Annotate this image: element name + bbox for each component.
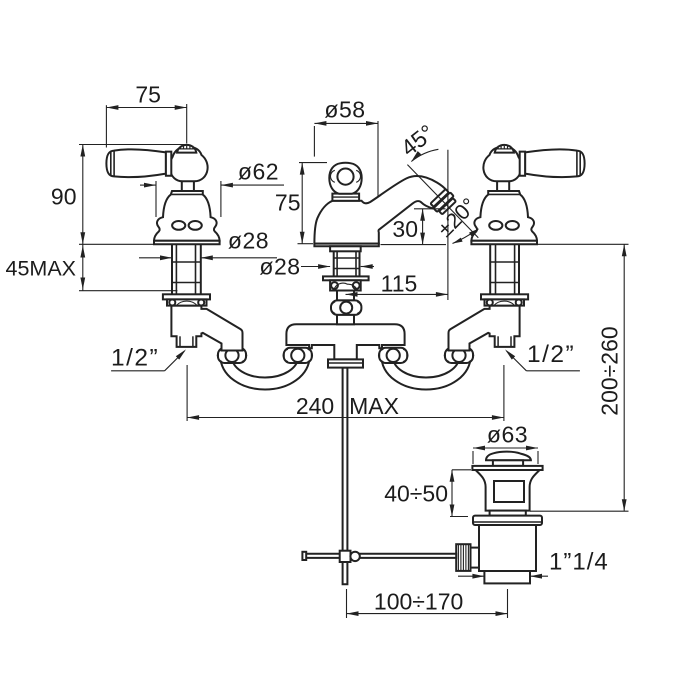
dimension diameter 28 left — [139, 257, 172, 259]
deck flange — [163, 294, 210, 299]
manifold bottom flange — [328, 359, 363, 367]
knob side arcs — [330, 170, 334, 182]
locknut — [167, 299, 207, 305]
svg-text:90: 90 — [51, 184, 77, 210]
45 degree spout angle — [447, 150, 449, 300]
svg-text:30: 30 — [392, 216, 418, 242]
deck flange — [481, 294, 528, 299]
center manifold body — [286, 324, 404, 359]
rod end cap — [302, 552, 306, 560]
svg-text:240: 240 — [296, 393, 334, 419]
dimension 75 left handle — [105, 105, 107, 147]
tap below-deck body and outlet arm — [449, 306, 520, 351]
tap bell base — [471, 191, 537, 241]
manifold right nut — [379, 348, 407, 363]
waste neck — [490, 511, 526, 516]
dimension 40-50 — [451, 470, 453, 517]
svg-text:45MAX: 45MAX — [6, 257, 77, 281]
lever handle grip — [106, 149, 165, 177]
threaded shank — [518, 244, 520, 294]
handle neck — [497, 180, 509, 191]
dimension 45MAX — [82, 244, 84, 290]
deck reference line left — [79, 243, 170, 245]
svg-text:115: 115 — [381, 271, 418, 297]
rod clamp block — [340, 551, 351, 562]
threaded shank — [171, 244, 173, 294]
knurled adjuster nut — [456, 544, 470, 571]
tailpiece 1 1/4 — [484, 571, 530, 583]
centerline tick for 115 — [345, 284, 347, 300]
spout base ring — [314, 244, 378, 247]
handle ball head — [170, 147, 208, 182]
dimension 75 center — [299, 162, 327, 164]
spout deck flange — [323, 276, 369, 280]
riser tube upper — [337, 291, 354, 301]
right U connection pipe — [382, 357, 471, 390]
dimension diameter 63 — [472, 451, 474, 464]
tap below-deck body and outlet arm — [171, 306, 242, 351]
bell ovals — [506, 221, 519, 230]
overflow window — [494, 481, 524, 502]
locknut — [485, 299, 525, 305]
dimension 200-260 — [534, 243, 629, 245]
lever handle grip — [525, 149, 585, 177]
svg-text:75: 75 — [135, 82, 161, 108]
handle neck — [182, 180, 194, 191]
1/2 inch inlet thread — [179, 336, 181, 347]
svg-text:1/2”: 1/2” — [111, 345, 159, 372]
swivel nut — [331, 300, 361, 315]
spout base step — [330, 246, 361, 251]
bell base ring — [471, 241, 537, 245]
dimension 115 — [346, 293, 448, 295]
manifold left nut — [284, 348, 312, 363]
bell ovals — [172, 221, 185, 230]
dimension diameter 28 center — [301, 266, 330, 268]
bell base ring — [154, 241, 220, 245]
handle collar — [166, 152, 171, 176]
right tap pipe nut — [445, 348, 473, 363]
waste top flange — [472, 466, 542, 470]
spout collar — [332, 194, 359, 201]
handle ball head — [483, 147, 521, 182]
adjuster collar — [471, 548, 480, 568]
waste upper body — [476, 470, 540, 511]
cap neck — [493, 460, 523, 466]
center spout body and bell — [314, 176, 446, 244]
waste lower body — [479, 525, 536, 571]
svg-text:MAX: MAX — [349, 393, 399, 419]
dimension 30 — [414, 208, 446, 210]
riser tube lower — [337, 315, 354, 324]
label 1 inch 1/4 — [458, 575, 484, 577]
spout aerator — [430, 188, 458, 215]
dimension diameter 62 — [155, 181, 157, 217]
dimension 240 MAX — [186, 365, 188, 421]
dimension diameter 58 — [313, 126, 315, 157]
handle screw cap — [495, 145, 514, 153]
left tap pipe nut — [218, 348, 246, 363]
spout top knob — [329, 163, 361, 194]
spout locknut — [330, 280, 361, 290]
horizontal pop-up actuator rod — [306, 554, 456, 558]
spout threaded shank — [333, 251, 335, 276]
dimension 100-170 — [346, 589, 348, 618]
rod clamp screw — [350, 552, 359, 561]
svg-text:ø58: ø58 — [324, 96, 365, 122]
pop-up rod — [343, 368, 348, 585]
svg-text:ø63: ø63 — [487, 421, 528, 447]
tap bell base — [154, 191, 220, 241]
svg-text:ø62: ø62 — [238, 159, 279, 185]
svg-text:75: 75 — [275, 190, 301, 216]
svg-text:ø28: ø28 — [228, 227, 269, 253]
knob center circle — [337, 169, 353, 185]
dimension 90 — [79, 144, 187, 146]
svg-text:1”1/4: 1”1/4 — [549, 549, 609, 576]
svg-text:40÷50: 40÷50 — [384, 481, 448, 507]
handle screw cap — [177, 145, 196, 153]
svg-text:200÷260: 200÷260 — [597, 326, 623, 415]
svg-text:ø28: ø28 — [259, 254, 300, 280]
pop-up waste cap dome — [486, 452, 531, 461]
left U connection pipe — [221, 357, 310, 390]
1/2 inch inlet thread — [510, 336, 512, 347]
svg-text:100÷170: 100÷170 — [374, 589, 463, 615]
handle collar — [520, 152, 525, 176]
svg-text:1/2”: 1/2” — [527, 341, 575, 368]
waste lower flange — [473, 516, 542, 525]
